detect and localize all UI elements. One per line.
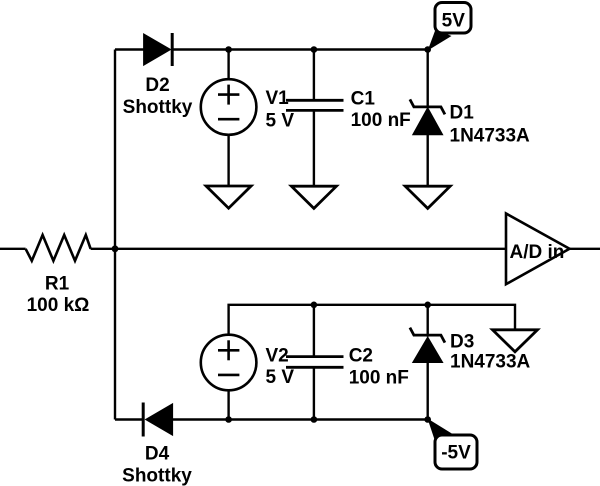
ground under V1 [206,186,251,208]
wire: D3 bottom lead [427,363,429,420]
zener diode D3 [410,328,445,363]
V2 value label [266,345,295,388]
wire: C2 top lead [313,305,315,357]
svg-text:Shottky: Shottky [122,465,192,486]
wire: main horizontal net from R1 to A/D buffer [91,248,506,250]
junction: bottom rail / C2 [311,416,318,423]
net flag -5V callout tail [428,419,456,445]
svg-text:D3: D3 [450,331,474,352]
wire: V1 bottom lead [227,135,229,186]
capacitor C1 [286,100,344,110]
wire: bottom rail from D4 to -5V node [173,418,428,420]
junction: bottom top-rail / C2 [311,302,318,309]
ground under C1 [291,186,336,208]
svg-text:5 V: 5 V [266,367,295,388]
svg-text:R1: R1 [45,273,70,294]
svg-text:1N4733A: 1N4733A [450,352,531,373]
svg-text:1N4733A: 1N4733A [450,125,531,146]
svg-text:D2: D2 [145,75,169,96]
svg-text:V2: V2 [266,345,289,366]
C1 value label [351,88,411,131]
svg-text:V1: V1 [266,88,290,109]
svg-text:Shottky: Shottky [123,97,193,118]
voltage source V2 [201,335,257,391]
wire: C1 top lead [313,50,315,101]
wire: input lead from left edge to R1 [0,248,26,250]
junction: top rail / C1 [311,46,318,53]
wire: C2 bottom lead [313,367,315,419]
wire: V1 top lead [227,50,229,81]
D2 value label [123,75,193,118]
wire: C1 bottom lead [313,110,315,186]
svg-text:5 V: 5 V [266,110,295,131]
net flag -5V box [435,435,477,469]
wire: bottom rail left segment to D4 [115,418,143,420]
junction: main node at x=115 [112,245,119,252]
junction: bottom rail / V2 [225,416,232,423]
wire: A/D buffer output lead [570,248,600,250]
diode D2 [144,33,173,66]
V1 value label [266,88,295,132]
zener diode D1 [410,99,445,134]
junction: bottom rail / D3 / -5V net [424,416,431,423]
R1 value label [27,273,90,316]
junction: top rail / V1 [225,46,232,53]
wire: bottom section top rail [229,305,515,335]
svg-text:-5V: -5V [441,442,471,463]
svg-text:D1: D1 [450,102,475,123]
wire: V2 bottom lead [227,390,229,419]
resistor R1 [26,235,91,261]
wire: vertical bus x=115 from top rail to bottom rail [114,50,116,420]
wire: top rail from D2 to 5V corner [172,48,428,50]
op-amp buffer A/D in [506,214,570,285]
svg-text:100 kΩ: 100 kΩ [27,295,90,316]
junction: top rail / D1 / 5V net [424,46,431,53]
ground right of D3 [493,330,538,352]
D4 value label [122,443,192,486]
D1 value label [450,102,531,146]
C2 value label [349,345,409,388]
ground under D1 [405,186,450,208]
diode D4 [143,403,172,437]
svg-text:C1: C1 [351,88,376,109]
svg-text:100 nF: 100 nF [351,110,411,131]
net flag 5V box [435,3,471,34]
svg-text:100 nF: 100 nF [349,367,409,388]
D3 value label [450,331,531,372]
wire: D1 bottom lead [427,135,429,186]
wire: D3 top lead [427,305,429,337]
wire: top rail left segment to D2 [115,48,144,50]
voltage source V1 [201,79,257,135]
net flag 5V callout tail [428,30,452,51]
svg-text:5V: 5V [442,10,466,31]
capacitor C2 [286,357,344,368]
svg-text:C2: C2 [349,345,373,366]
svg-text:D4: D4 [145,443,170,464]
junction: bottom top-rail / D3 [424,302,431,309]
wire: D1 top lead [427,50,429,108]
svg-text:A/D in: A/D in [510,242,565,263]
